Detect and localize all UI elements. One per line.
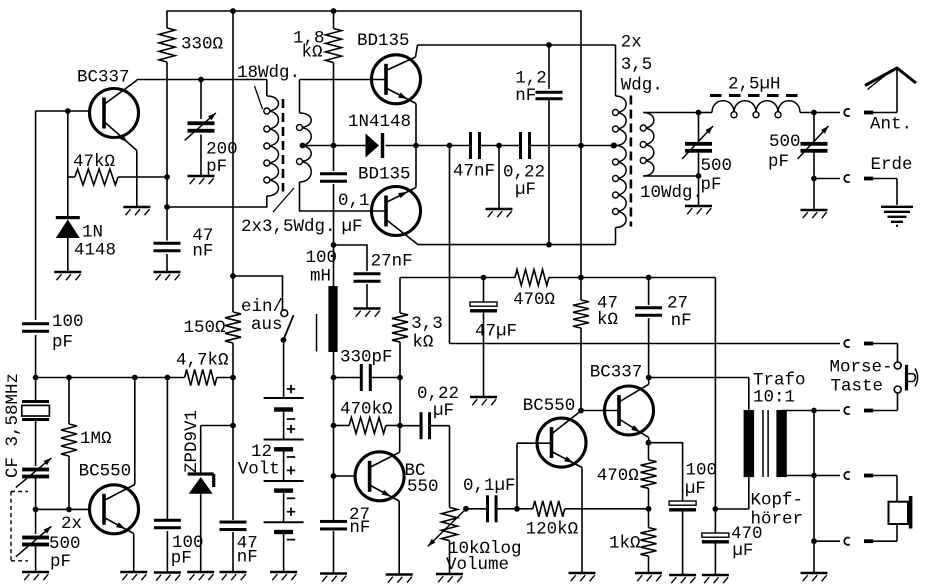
svg-text:27nF: 27nF xyxy=(371,252,413,272)
svg-text:kΩ: kΩ xyxy=(412,333,433,353)
svg-text:pF: pF xyxy=(701,175,722,195)
svg-text:pF: pF xyxy=(52,333,73,353)
svg-text:kΩ: kΩ xyxy=(597,310,618,330)
svg-text:pF: pF xyxy=(206,157,227,177)
svg-text:nF: nF xyxy=(349,518,370,538)
svg-text:nF: nF xyxy=(237,548,258,568)
svg-text:1N: 1N xyxy=(82,223,103,243)
svg-text:ZPD9V1: ZPD9V1 xyxy=(182,410,202,473)
svg-text:Morse-: Morse- xyxy=(830,358,893,378)
svg-text:mH: mH xyxy=(310,267,331,287)
svg-text:2x: 2x xyxy=(61,514,82,534)
svg-text:18Wdg.: 18Wdg. xyxy=(237,63,300,83)
svg-text:BC550: BC550 xyxy=(523,396,576,416)
svg-text:nF: nF xyxy=(192,242,213,262)
svg-text:1N4148: 1N4148 xyxy=(348,112,411,132)
svg-text:470Ω: 470Ω xyxy=(513,290,555,310)
svg-text:µF: µF xyxy=(515,180,536,200)
svg-text:3,5: 3,5 xyxy=(621,55,653,75)
svg-text:47µF: 47µF xyxy=(475,322,517,342)
svg-text:BC337: BC337 xyxy=(77,68,130,88)
svg-text:BC337: BC337 xyxy=(590,363,643,383)
svg-text:100: 100 xyxy=(686,461,718,481)
svg-text:47nF: 47nF xyxy=(453,162,495,182)
svg-text:ein/: ein/ xyxy=(241,297,283,317)
svg-text:BD135: BD135 xyxy=(357,31,410,51)
svg-text:Ant.: Ant. xyxy=(870,115,912,135)
svg-text:500: 500 xyxy=(701,156,733,176)
svg-text:500: 500 xyxy=(769,132,801,152)
svg-text:100: 100 xyxy=(306,248,338,268)
svg-text:Wdg.: Wdg. xyxy=(621,76,663,96)
svg-text:BD135: BD135 xyxy=(358,165,411,185)
svg-text:µF: µF xyxy=(342,217,363,237)
svg-text:0,1µF: 0,1µF xyxy=(463,476,516,496)
svg-text:Volume: Volume xyxy=(446,555,509,575)
svg-text:CF 3,58MHz: CF 3,58MHz xyxy=(3,373,23,478)
svg-text:Erde: Erde xyxy=(871,155,913,175)
svg-text:550: 550 xyxy=(407,477,439,497)
svg-text:2x3,5Wdg.: 2x3,5Wdg. xyxy=(241,217,336,237)
svg-text:pF: pF xyxy=(171,549,192,569)
svg-text:470Ω: 470Ω xyxy=(597,466,639,486)
svg-text:1kΩ: 1kΩ xyxy=(609,534,641,554)
svg-text:120kΩ: 120kΩ xyxy=(526,519,579,539)
svg-text:470kΩ: 470kΩ xyxy=(340,400,393,420)
svg-text:4148: 4148 xyxy=(74,241,116,261)
svg-text:µF: µF xyxy=(433,401,454,421)
svg-text:1MΩ: 1MΩ xyxy=(80,429,112,449)
svg-text:47kΩ: 47kΩ xyxy=(73,152,115,172)
svg-text:Taste: Taste xyxy=(831,377,884,397)
svg-text:µF: µF xyxy=(732,541,753,561)
svg-text:hörer: hörer xyxy=(751,510,804,530)
svg-text:Kopf-: Kopf- xyxy=(751,491,804,511)
svg-text:0,1: 0,1 xyxy=(338,191,370,211)
svg-text:nF: nF xyxy=(671,311,692,331)
svg-text:kΩ: kΩ xyxy=(302,43,323,63)
svg-text:3,3: 3,3 xyxy=(411,314,443,334)
svg-text:330Ω: 330Ω xyxy=(181,35,223,55)
svg-text:150Ω: 150Ω xyxy=(184,318,226,338)
svg-text:BC550: BC550 xyxy=(79,462,132,482)
svg-text:aus: aus xyxy=(251,315,283,335)
svg-text:2x: 2x xyxy=(621,33,642,53)
svg-text:2,5µH: 2,5µH xyxy=(728,75,781,95)
svg-text:µF: µF xyxy=(685,479,706,499)
svg-text:500: 500 xyxy=(49,534,81,554)
svg-text:4,7kΩ: 4,7kΩ xyxy=(176,351,229,371)
svg-text:pF: pF xyxy=(50,552,71,572)
svg-text:330pF: 330pF xyxy=(340,348,393,368)
svg-text:10Wdg.: 10Wdg. xyxy=(640,183,703,203)
svg-text:Volt: Volt xyxy=(238,460,280,480)
svg-text:nF: nF xyxy=(515,86,536,106)
svg-text:100: 100 xyxy=(52,312,84,332)
svg-text:pF: pF xyxy=(768,152,789,172)
svg-text:10:1: 10:1 xyxy=(753,388,795,408)
